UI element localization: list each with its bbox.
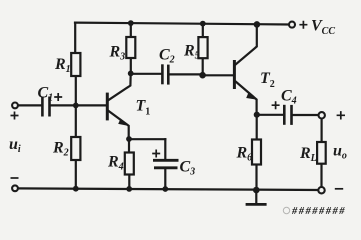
svg-text:T1: T1 — [136, 98, 151, 118]
svg-text:R1: R1 — [54, 56, 71, 75]
svg-text:R3: R3 — [109, 44, 126, 63]
svg-text:R4: R4 — [107, 154, 124, 173]
svg-text:RL: RL — [299, 145, 317, 164]
svg-text:uo: uo — [333, 142, 347, 161]
svg-text:C3: C3 — [180, 158, 196, 177]
svg-text:C1: C1 — [38, 85, 54, 104]
svg-text:C4: C4 — [281, 88, 297, 107]
svg-text:R5: R5 — [183, 43, 200, 62]
svg-text:R6: R6 — [236, 145, 253, 164]
svg-text:########: ######## — [291, 206, 346, 217]
svg-text:C2: C2 — [159, 47, 175, 66]
svg-text:T2: T2 — [260, 70, 275, 90]
svg-text:ui: ui — [9, 136, 21, 155]
svg-text:R2: R2 — [52, 140, 69, 159]
svg-text:VCC: VCC — [311, 18, 335, 37]
